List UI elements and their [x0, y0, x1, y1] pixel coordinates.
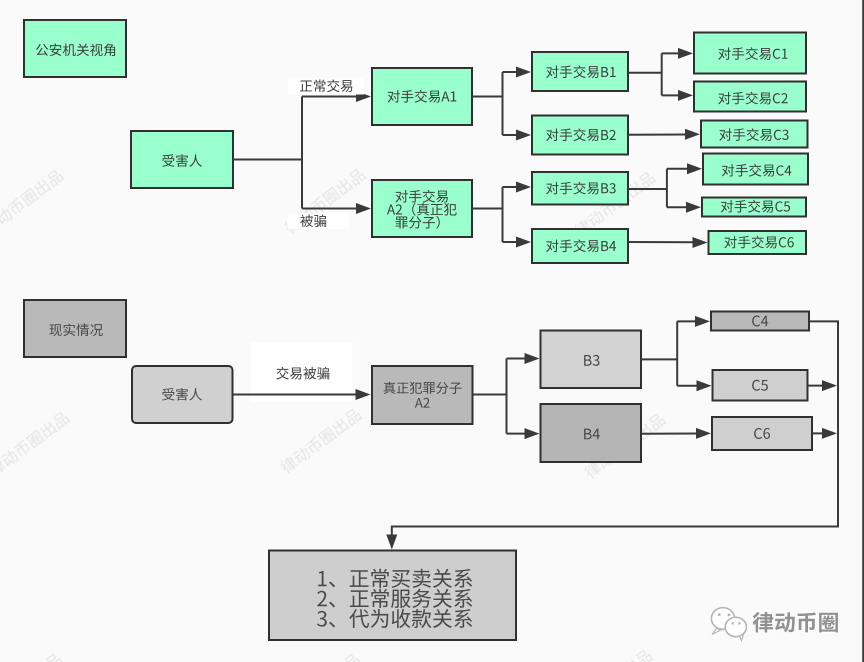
box C5	[713, 370, 808, 401]
wire to C4 arrow	[667, 168, 690, 170]
wire C5b to junction arrow	[808, 385, 825, 387]
box 对手交易C3	[701, 121, 808, 148]
wire to B1 arrow	[503, 71, 520, 73]
box B4	[541, 404, 642, 462]
wire to C5 arrow	[667, 206, 689, 208]
box legend	[269, 551, 516, 641]
box 对手交易C4	[703, 154, 808, 185]
box 受害人 (bottom, rounded)	[132, 366, 233, 423]
watermark 8	[277, 652, 361, 662]
wire to C1 arrow	[662, 52, 681, 54]
box title 公安机关视角	[24, 20, 126, 77]
logo wechat icon	[711, 608, 746, 641]
wire to C4b arrow	[677, 320, 698, 322]
watermark 4	[0, 410, 71, 479]
box 对手交易B4	[532, 229, 628, 263]
wire to B3 arrow	[503, 186, 520, 188]
wire B4b to C6b arrow	[641, 433, 699, 435]
box 受害人 (top)	[131, 131, 233, 188]
box 对手交易C2	[694, 82, 806, 112]
wire B1 to C12 branch	[628, 72, 662, 74]
box 对手交易B1	[532, 52, 628, 91]
wire to A1 with arrow	[302, 96, 359, 98]
box C4	[711, 312, 809, 331]
watermark 3	[572, 170, 656, 239]
wire C4b right route to legend with arrow	[392, 321, 838, 536]
logo text 律动币圈	[754, 613, 839, 633]
label 被骗	[288, 214, 349, 230]
wire to C5b arrow	[677, 385, 699, 387]
wire to B3b arrow	[507, 358, 528, 360]
label 交易被骗 background	[251, 343, 353, 402]
box 对手交易C1	[694, 33, 806, 74]
wire 受害人b to A2b arrow	[233, 394, 359, 396]
box 对手交易C6	[709, 231, 807, 254]
label 交易被骗 text	[276, 367, 329, 380]
box 对手交易A2（真正犯罪分子）	[372, 180, 472, 237]
box title 现实情况	[24, 300, 126, 357]
watermark 1	[0, 168, 65, 237]
box 真正犯罪分子A2	[372, 366, 473, 424]
wire to A2 with arrow	[302, 208, 359, 210]
box B3	[541, 331, 642, 389]
box C6	[712, 417, 812, 450]
wire 受害人 to branch	[233, 159, 302, 161]
box 对手交易B2	[532, 116, 628, 155]
wire to B4b arrow	[507, 433, 528, 435]
watermark 9	[569, 648, 653, 662]
wire B3b to C45 branch	[641, 358, 677, 360]
wire A2 to B34 branch	[472, 208, 503, 210]
right edge border line	[862, 0, 864, 662]
watermark 7	[0, 652, 64, 662]
wire A2b to B34 branch	[473, 394, 507, 396]
wire C6b to junction arrow	[812, 432, 825, 434]
label 正常交易	[288, 78, 364, 95]
wire B2 to C3 arrow	[628, 134, 688, 136]
watermark 5	[278, 407, 362, 476]
wire branch vertical	[301, 97, 303, 209]
box 对手交易C5	[702, 198, 806, 217]
wire A1 to B branch	[472, 96, 503, 98]
wire B3 to C45 branch	[628, 188, 667, 190]
wire to B2 arrow	[503, 134, 520, 136]
box 对手交易B3	[532, 172, 628, 205]
wire to C2 arrow	[662, 94, 681, 96]
box 对手交易A1	[372, 68, 472, 125]
watermark 6	[582, 412, 666, 481]
watermark 2	[282, 167, 366, 236]
wire B4 to C6 arrow	[628, 241, 696, 243]
wire to B4 arrow	[503, 241, 520, 243]
